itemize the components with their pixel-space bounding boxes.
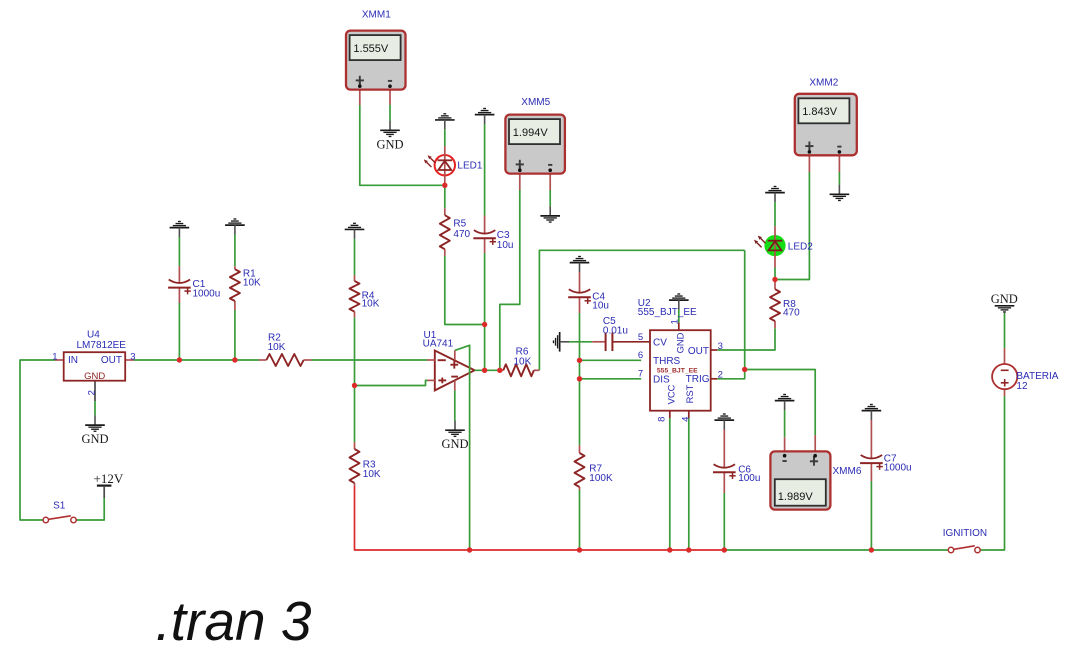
- wire ground to C1 top: [178, 237, 180, 266]
- wire R1 bottom to bus: [234, 310, 236, 360]
- wire node to R3 top: [354, 386, 356, 443]
- wire ground to LED2 anode: [774, 202, 776, 226]
- wire XMM1 - to ground: [389, 105, 391, 121]
- wire ground to C3 top: [484, 124, 486, 216]
- wire op-amp V+ to bottom bus: [455, 345, 470, 550]
- svg-text:1000u: 1000u: [193, 288, 221, 299]
- wire IGNITION to battery: [980, 396, 1004, 550]
- svg-text:XMM5: XMM5: [521, 97, 550, 108]
- junction: [232, 357, 237, 362]
- svg-text:10u: 10u: [497, 240, 514, 251]
- wire R7 bottom to bus: [579, 490, 581, 550]
- junction: [467, 547, 472, 552]
- capacitor C3 10u: [484, 216, 486, 234]
- svg-text:LM7812EE: LM7812EE: [77, 340, 127, 351]
- ground above LED1: [435, 114, 455, 130]
- svg-text:GND: GND: [376, 137, 403, 151]
- ground above XMM6 -: [775, 395, 795, 411]
- wire op-amp output to R6: [475, 369, 500, 371]
- svg-text:10K: 10K: [268, 342, 286, 353]
- svg-text:10K: 10K: [363, 469, 381, 480]
- svg-text:470: 470: [453, 229, 470, 240]
- svg-text:1.555V: 1.555V: [353, 43, 389, 55]
- capacitor C6 100u: [723, 430, 725, 468]
- junction: [742, 367, 747, 372]
- wire GND to battery +: [1004, 313, 1006, 348]
- wire ground to XMM6 -: [784, 410, 786, 437]
- svg-text:1.989V: 1.989V: [778, 491, 814, 503]
- svg-text:1.843V: 1.843V: [802, 106, 838, 118]
- svg-text:10K: 10K: [362, 299, 380, 310]
- wire R5 bottom to node C3/R5: [445, 256, 485, 325]
- ground GND at battery (top right): [995, 306, 1015, 314]
- svg-text:IN: IN: [68, 355, 78, 366]
- junction: [577, 547, 582, 552]
- svg-text:GND: GND: [991, 292, 1018, 306]
- svg-text:OUT: OUT: [688, 346, 709, 357]
- resistor R1 10K: [234, 266, 236, 269]
- svg-text:XMM1: XMM1: [362, 10, 391, 21]
- svg-text:RST: RST: [684, 384, 695, 403]
- wire ground to R1 top: [234, 235, 236, 267]
- svg-text:1.994V: 1.994V: [513, 127, 549, 139]
- wire TRIG node to XMM6 +: [745, 370, 816, 436]
- resistor R2 10K: [259, 359, 267, 361]
- wire C7 bottom to bus: [870, 481, 872, 550]
- svg-text:GND: GND: [81, 432, 108, 446]
- svg-text:100u: 100u: [738, 473, 760, 484]
- wire XMM2 + to LED2 node: [778, 172, 810, 280]
- wire C3 bottom to node: [484, 253, 486, 325]
- svg-text:DIS: DIS: [653, 375, 670, 386]
- multimeter XMM1: [359, 90, 361, 106]
- svg-text:GND: GND: [441, 437, 468, 451]
- ground above R4: [345, 223, 365, 239]
- wire C4 node to U2 THRS: [580, 359, 642, 361]
- multimeter XMM5: [519, 174, 521, 190]
- wire ground to LED1 anode: [444, 129, 446, 146]
- wire U2 VCC pin to bus: [669, 418, 671, 550]
- wire XMM5 + to output node: [500, 190, 520, 370]
- ground GND under op-amp: [445, 421, 465, 437]
- wire C4 bottom / R7 top node: [579, 313, 581, 445]
- ground (sideways) at C5: [554, 332, 570, 352]
- capacitor C1 1000u: [178, 266, 180, 283]
- resistor R5 470: [444, 208, 446, 215]
- ground above C3: [475, 109, 495, 125]
- ground above R1: [225, 219, 245, 235]
- capacitor C5 0.01u: [592, 341, 605, 343]
- ground above C6: [715, 414, 735, 430]
- junction: [577, 358, 582, 363]
- wire U4 pin 2 to ground: [94, 401, 96, 415]
- svg-text:10u: 10u: [592, 301, 609, 312]
- wire U4 pin1 to S1 loop: [20, 360, 55, 520]
- svg-text:U4: U4: [87, 329, 100, 340]
- svg-text:CV: CV: [653, 337, 667, 348]
- wire C1 bottom to bus: [178, 303, 180, 360]
- ground above C7: [862, 405, 882, 421]
- junction: [497, 368, 502, 373]
- junction: [352, 383, 357, 388]
- wire U4 OUT bus: [134, 359, 259, 361]
- resistor R4 10K: [354, 275, 356, 281]
- svg-text:3: 3: [718, 341, 723, 352]
- wire XMM2 - to ground: [838, 172, 840, 185]
- wire C6 bottom to bus: [723, 493, 725, 550]
- ground above U2 pin 1: [669, 294, 689, 310]
- ground above LED2: [765, 187, 785, 203]
- svg-text:100K: 100K: [589, 473, 613, 484]
- ground above C1: [170, 222, 190, 238]
- svg-text:2: 2: [87, 390, 98, 395]
- wire S1 to +12V source: [76, 498, 104, 520]
- capacitor C7 1000u: [870, 420, 872, 459]
- svg-text:10K: 10K: [514, 357, 532, 368]
- svg-text:3: 3: [130, 351, 135, 362]
- wire U2 RST pin to bus: [688, 418, 690, 550]
- svg-text:1: 1: [670, 319, 681, 324]
- svg-text:555_BJT_EE: 555_BJT_EE: [638, 307, 697, 318]
- timer U2 555_BJT_EE: [669, 411, 671, 419]
- svg-text:IGNITION: IGNITION: [943, 528, 987, 539]
- svg-text:S1: S1: [53, 501, 66, 512]
- svg-text:VCC: VCC: [665, 384, 676, 404]
- wire TRIG net down to pin 2: [717, 250, 744, 378]
- junction: [482, 368, 487, 373]
- resistor R3 10K: [354, 442, 356, 449]
- wire R2 to op-amp inverting input: [312, 359, 428, 361]
- wire R6 to U2 TRIG net: [539, 250, 744, 370]
- LED2 green LED: [764, 235, 785, 256]
- wire node to U2 DIS: [580, 378, 642, 380]
- wire bottom bus red segment (R3 to C6 node): [355, 486, 725, 550]
- svg-text:0.01u: 0.01u: [603, 326, 628, 337]
- wire ground to U2 GND pin: [678, 310, 680, 323]
- svg-text:7: 7: [638, 369, 643, 380]
- junction: [177, 357, 182, 362]
- switch IGNITION: [954, 546, 975, 550]
- svg-text:XMM6: XMM6: [833, 466, 862, 477]
- wire bottom bus green segment: [724, 549, 948, 551]
- svg-text:+12V: +12V: [94, 471, 124, 486]
- resistor R8 470: [774, 281, 776, 289]
- svg-text:XMM2: XMM2: [809, 78, 838, 89]
- ground under XMM5 -: [540, 206, 560, 222]
- svg-text:GND: GND: [84, 371, 105, 382]
- ground GND under U4: [85, 415, 105, 431]
- svg-text:THRS: THRS: [653, 356, 681, 367]
- capacitor C4 10u: [579, 272, 581, 293]
- multimeter XMM6 (flipped): [784, 437, 786, 451]
- ground above C4: [570, 257, 590, 273]
- svg-text:6: 6: [638, 350, 643, 361]
- svg-text:LED2: LED2: [788, 242, 813, 253]
- junction: [686, 547, 691, 552]
- wire node C3/R5 to op-amp output node: [484, 325, 486, 371]
- svg-text:1000u: 1000u: [884, 463, 912, 474]
- svg-text:OUT: OUT: [101, 355, 122, 366]
- svg-text:8: 8: [657, 417, 668, 422]
- svg-text:TRIG: TRIG: [686, 374, 710, 385]
- ground under XMM1 -: [380, 121, 400, 137]
- resistor R7 100K: [579, 445, 581, 453]
- LED1 red LED: [435, 155, 455, 175]
- wire op-amp V- to ground: [454, 390, 456, 420]
- svg-text:12: 12: [1016, 381, 1028, 392]
- svg-text:1: 1: [52, 351, 57, 362]
- junction: [722, 547, 727, 552]
- wire LED2 cathode to R8 node: [774, 267, 776, 279]
- op-amp U1 input/supply pin leads: [427, 359, 435, 361]
- resistor R6 10K: [500, 369, 503, 371]
- svg-text:UA741: UA741: [423, 339, 454, 350]
- svg-text:10K: 10K: [243, 278, 261, 289]
- svg-text:.tran 3: .tran 3: [156, 590, 312, 652]
- junction: [667, 547, 672, 552]
- svg-text:555_BJT_EE: 555_BJT_EE: [657, 367, 698, 374]
- ground under XMM2 -: [830, 185, 850, 201]
- junction: [772, 277, 777, 282]
- svg-text:4: 4: [681, 417, 692, 422]
- svg-text:LED1: LED1: [457, 160, 482, 171]
- wire XMM1 + to LED1 cathode node: [360, 105, 442, 185]
- voltage regulator U4 LM7812EE: [55, 359, 64, 361]
- junction: [442, 183, 447, 188]
- wire XMM5 - to ground: [549, 190, 551, 206]
- battery BATERIA 12: [1004, 348, 1006, 364]
- svg-text:470: 470: [783, 307, 800, 318]
- svg-text:2: 2: [718, 369, 723, 380]
- wire C5 ground side: [569, 341, 592, 343]
- svg-text:GND: GND: [675, 332, 686, 353]
- switch S1: [49, 516, 71, 520]
- junction: [482, 322, 487, 327]
- wire ground to R4 top: [354, 239, 356, 275]
- +12V supply: [97, 485, 112, 487]
- wire R4 bottom to node: [354, 317, 356, 385]
- multimeter XMM2: [808, 156, 810, 173]
- wire LED1 node to R5 top: [444, 185, 446, 208]
- op-amp U1 UA741: [435, 351, 475, 391]
- junction: [577, 376, 582, 381]
- wire U2 OUT to R8: [717, 328, 775, 350]
- svg-text:5: 5: [638, 332, 643, 343]
- wire node R3/R4 to op-amp non-inverting input: [355, 380, 428, 385]
- junction: [869, 547, 874, 552]
